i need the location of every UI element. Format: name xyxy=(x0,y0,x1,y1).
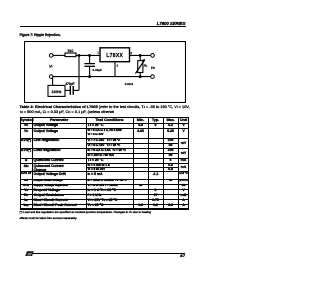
RL variable arrow xyxy=(135,60,144,74)
svg-text:510: 510 xyxy=(68,49,74,53)
generator 120Hz box xyxy=(48,85,65,96)
svg-text:1: 1 xyxy=(97,50,99,54)
ripple wire horizontal xyxy=(73,89,79,91)
pin 3 wire xyxy=(114,61,116,76)
wire RL top xyxy=(139,55,141,60)
capacitor C1 plates xyxy=(84,62,95,64)
capacitor C1 0.33uF wires xyxy=(89,55,91,63)
input terminal Vi+ xyxy=(49,53,53,57)
resistor 510 xyxy=(65,53,76,57)
output terminal Vo- xyxy=(151,74,155,78)
node D (RL ground) xyxy=(139,75,141,77)
wire RL bottom xyxy=(139,72,141,76)
output terminal Vo+ xyxy=(151,53,155,57)
wire gen to ground rail xyxy=(52,76,54,85)
capacitor C2 470uF plates xyxy=(69,86,71,95)
wire output xyxy=(130,54,151,56)
svg-text:2: 2 xyxy=(130,50,132,54)
input terminal Vi- xyxy=(49,74,53,78)
ground rail wire xyxy=(53,75,151,77)
svg-text:L78XX: L78XX xyxy=(106,53,123,59)
svg-text:3: 3 xyxy=(117,63,119,67)
svg-text:470μF: 470μF xyxy=(65,81,74,85)
node C (load tap) xyxy=(139,54,141,56)
load resistor RL body xyxy=(138,60,143,72)
wire gen to C2 xyxy=(65,89,70,91)
svg-text:0.33μF: 0.33μF xyxy=(92,68,102,72)
node B (input bypass) xyxy=(89,54,91,56)
node A (ripple injection) xyxy=(78,54,80,56)
ripple wire vertical xyxy=(78,55,80,90)
svg-text:120Hz: 120Hz xyxy=(51,90,61,94)
svg-text:S-9119: S-9119 xyxy=(125,82,134,86)
regulator U1 L78XX box xyxy=(100,47,130,61)
svg-text:VI: VI xyxy=(49,63,53,68)
wire xyxy=(53,54,65,56)
schematic frame xyxy=(25,41,186,102)
wire xyxy=(76,54,100,56)
svg-text:RL: RL xyxy=(144,63,148,67)
svg-text:VO: VO xyxy=(151,65,155,69)
node E (cap ground) xyxy=(89,75,91,77)
